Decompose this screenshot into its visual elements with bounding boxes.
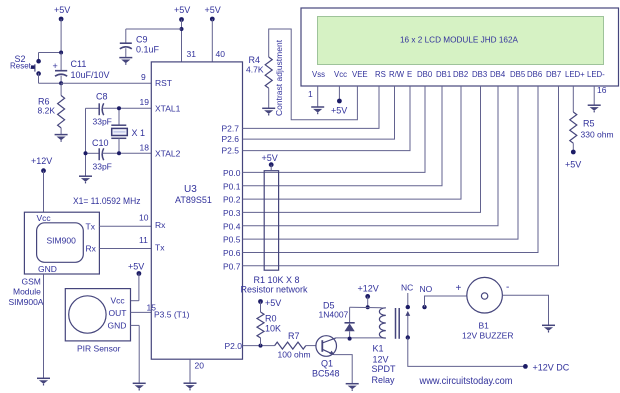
svg-text:P0.6: P0.6 (223, 248, 241, 258)
svg-text:18: 18 (140, 143, 150, 153)
svg-text:20: 20 (195, 361, 205, 371)
svg-text:VEE: VEE (352, 70, 368, 79)
svg-text:C9: C9 (136, 35, 148, 45)
node junction dot below C11 (59, 81, 63, 85)
wire relay NO to buzzer plus (425, 296, 467, 307)
svg-text:P0.2: P0.2 (223, 195, 241, 205)
svg-text:+: + (53, 61, 58, 71)
ground (below R6) (55, 135, 68, 142)
wire LCD DB3 to U3 P0.3 (243, 86, 481, 212)
ground (U3 pin 20) (184, 383, 197, 390)
wire LCD R/W to U3 P2.6 (243, 86, 395, 139)
label C8 value (93, 92, 112, 127)
wire U3 P2.0 to R7 (243, 345, 275, 347)
svg-text:+: + (456, 283, 462, 294)
svg-text:12V BUZZER: 12V BUZZER (462, 331, 514, 341)
svg-text:16 x 2 LCD MODULE JHD 162A: 16 x 2 LCD MODULE JHD 162A (400, 35, 518, 45)
svg-text:XTAL1: XTAL1 (155, 104, 181, 114)
wire S2 bottom to lower junction (39, 73, 62, 83)
svg-text:R7: R7 (288, 331, 300, 341)
svg-text:P2.0: P2.0 (225, 341, 243, 351)
LCD module box (301, 8, 619, 86)
wire relay coil top line (350, 306, 386, 309)
wire LCD DB2 to U3 P0.2 (243, 86, 462, 199)
svg-text:Reset: Reset (10, 62, 32, 71)
node +5V supply (R1 common) (262, 153, 278, 171)
node junction dot D5 anode (348, 337, 352, 341)
svg-text:16: 16 (597, 85, 607, 95)
label D5 1N4007 (319, 301, 349, 320)
resistor R5 330 ohm (570, 112, 577, 152)
LCD pin labels (312, 70, 605, 79)
svg-text:Tx: Tx (155, 243, 165, 253)
svg-text:Vss: Vss (312, 70, 325, 79)
svg-text:1N4007: 1N4007 (319, 310, 349, 320)
svg-text:B1: B1 (479, 321, 490, 331)
svg-text:AT89S51: AT89S51 (175, 195, 212, 205)
node relay NC contact (406, 305, 410, 309)
svg-text:P3.5 (T1): P3.5 (T1) (154, 310, 190, 320)
svg-text:DB4: DB4 (490, 70, 506, 79)
label GSM Module SIM900A (9, 277, 44, 308)
node relay common pivot (406, 335, 410, 339)
svg-text:8.2K: 8.2K (38, 106, 56, 116)
resistor R0 10K (257, 302, 264, 346)
label K1 12V SPDT Relay (372, 344, 397, 386)
label C10 value (92, 138, 112, 172)
relay K1 coil (379, 308, 385, 338)
svg-text:+5V: +5V (54, 5, 70, 15)
svg-text:DB3: DB3 (472, 70, 487, 79)
svg-text:X 1: X 1 (132, 128, 146, 138)
wire LCD E to U3 P2.5 (243, 86, 411, 151)
svg-text:1: 1 (308, 89, 313, 99)
svg-text:P0.3: P0.3 (223, 208, 241, 218)
svg-text:R5: R5 (583, 119, 595, 129)
node junction dot P2.0/R0 (259, 344, 263, 348)
svg-text:E: E (407, 70, 412, 79)
node +12V supply (GSM) (31, 156, 52, 173)
node junction dot relay coil top (366, 305, 370, 309)
U3 right side port labels P2.7 P2.6 P2.5 (222, 124, 240, 156)
LCD green screen (318, 17, 604, 65)
svg-text:+5V: +5V (565, 160, 581, 170)
svg-text:19: 19 (140, 97, 150, 107)
wire NC stub (407, 293, 409, 307)
svg-text:DB5: DB5 (510, 70, 526, 79)
label R6 value (38, 97, 56, 116)
wire U3 pin 20 to ground (189, 359, 191, 383)
wire GSM Tx to U3 Rx (pin 10) (99, 225, 151, 227)
svg-text:31: 31 (187, 49, 197, 59)
svg-text:P0.7: P0.7 (223, 261, 241, 271)
relay K1 core bars (396, 308, 400, 339)
buzzer B1 (467, 277, 503, 313)
resistor R7 100 ohm (275, 342, 316, 349)
wire LCD Vcc stub (338, 86, 340, 101)
svg-text:P0.1: P0.1 (223, 181, 241, 191)
svg-text:+12V DC: +12V DC (533, 363, 570, 373)
U3 pin name labels (154, 78, 190, 320)
node +5V supply (LCD Vcc) (331, 99, 347, 116)
node +5V supply (PIR) (128, 262, 144, 276)
svg-text:DB2: DB2 (453, 70, 468, 79)
svg-text:RST: RST (155, 78, 172, 88)
wire PIR OUT to U3 P3.5 pin 15 (131, 311, 152, 313)
svg-text:R1 10K X 8: R1 10K X 8 (254, 275, 300, 285)
ground (LCD LED-) (588, 105, 601, 112)
svg-text:K1: K1 (373, 344, 384, 354)
label B1 12V BUZZER (462, 321, 514, 341)
svg-text:R/W: R/W (389, 70, 405, 79)
svg-text:U3: U3 (184, 184, 197, 195)
svg-text:10uF/10V: 10uF/10V (71, 70, 110, 80)
svg-text:Tx: Tx (86, 222, 96, 232)
ground (GSM module) (37, 378, 50, 385)
svg-text:PIR Sensor: PIR Sensor (77, 344, 121, 354)
resistor R6 8.2K (58, 83, 65, 134)
label R4 value (246, 55, 264, 75)
label C9 value (136, 35, 160, 55)
svg-text:LED-: LED- (587, 70, 605, 79)
resistor R4 4.7K (265, 57, 272, 108)
node junction dot at +5V/C11 (59, 51, 63, 55)
svg-text:0.1uF: 0.1uF (136, 45, 160, 55)
wire LCD DB7 to U3 P0.7 (243, 86, 559, 266)
wire LCD DB4 to U3 P0.4 (243, 86, 499, 226)
svg-text:Vcc: Vcc (334, 70, 347, 79)
label R7 value (278, 331, 311, 360)
crystal X1 (111, 108, 127, 153)
wire GSM GND down (43, 274, 45, 378)
wire LCD DB1 to U3 P0.1 (243, 86, 443, 186)
wire between C8 and C10 left plates (85, 108, 87, 176)
wire LCD Vss to ground (317, 86, 319, 107)
GSM module SIM900 box (24, 212, 99, 274)
svg-text:DB0: DB0 (417, 70, 433, 79)
svg-text:+5V: +5V (262, 153, 278, 163)
node +5V supply (pin 31) (174, 5, 190, 22)
node +5V supply (R5) (565, 150, 581, 170)
svg-text:+5V: +5V (174, 5, 190, 15)
ground (buzzer) (542, 325, 555, 332)
svg-text:GSM: GSM (22, 277, 41, 287)
svg-text:Vcc: Vcc (37, 213, 52, 223)
svg-text:Vcc: Vcc (111, 296, 126, 306)
wire junction to S2 top (39, 53, 62, 62)
svg-text:X1= 11.0592 MHz: X1= 11.0592 MHz (73, 196, 141, 206)
svg-text:100 ohm: 100 ohm (278, 350, 311, 360)
svg-text:LED+: LED+ (565, 70, 585, 79)
svg-text:SPDT: SPDT (372, 364, 397, 374)
capacitor C8 33pF (86, 103, 152, 115)
switch S2 (reset pushbutton) (31, 59, 41, 76)
svg-text:33pF: 33pF (93, 117, 112, 127)
svg-text:11: 11 (139, 235, 148, 245)
svg-text:Module: Module (13, 287, 41, 297)
svg-text:Contrast adjustment: Contrast adjustment (274, 39, 284, 116)
svg-text:XTAL2: XTAL2 (155, 149, 181, 159)
svg-text:R0: R0 (265, 314, 277, 324)
wire Q1 collector to relay coil bottom (335, 337, 386, 340)
svg-text:P0.5: P0.5 (223, 235, 241, 245)
capacitor C11 10uF/10V (53, 53, 68, 84)
svg-text:4.7K: 4.7K (246, 65, 264, 75)
node junction dot for C9 branch (180, 27, 184, 31)
node +5V supply (R0) (258, 298, 281, 308)
svg-text:DB6: DB6 (527, 70, 542, 79)
svg-text:Resistor network: Resistor network (241, 285, 309, 295)
relay K1 armature with arrow (405, 311, 410, 338)
svg-text:C10: C10 (92, 138, 109, 148)
svg-text:+5V: +5V (331, 106, 347, 116)
svg-text:GND: GND (38, 264, 57, 274)
svg-text:12V: 12V (373, 355, 389, 365)
svg-text:Rx: Rx (155, 220, 166, 230)
svg-text:+5V: +5V (128, 262, 144, 272)
wire +5V to PIR Vcc (131, 274, 139, 301)
svg-text:NO: NO (420, 284, 433, 294)
svg-text:P0.0: P0.0 (223, 168, 241, 178)
wire +5V down to reset junction (60, 19, 62, 53)
node junction dots at crystal (117, 106, 121, 155)
svg-text:10: 10 (139, 213, 149, 223)
svg-text:NC: NC (401, 283, 413, 293)
svg-text:+12V: +12V (358, 284, 379, 294)
svg-text:R4: R4 (249, 55, 261, 65)
svg-text:Relay: Relay (372, 375, 396, 385)
wire LCD DB6 to U3 P0.6 (243, 86, 539, 253)
node +12V supply (relay) (358, 284, 379, 308)
svg-text:P2.5: P2.5 (222, 146, 240, 156)
svg-text:P2.7: P2.7 (222, 124, 240, 134)
svg-text:P2.6: P2.6 (222, 134, 240, 144)
wire LCD DB5 to U3 P0.5 (243, 86, 519, 239)
svg-text:+5V: +5V (205, 5, 221, 15)
wire Q1 emitter to ground (334, 355, 352, 384)
svg-text:40: 40 (216, 49, 226, 59)
svg-text:C11: C11 (71, 59, 87, 69)
label C11 value (71, 59, 110, 80)
diode D5 1N4007 (345, 307, 355, 338)
label S2 Reset (10, 54, 32, 71)
PIR sensor box (65, 289, 130, 341)
wire LCD LED- to ground (593, 86, 595, 105)
svg-text:10K: 10K (265, 324, 281, 334)
svg-text:-: - (506, 282, 509, 293)
ground (Q1 emitter) (346, 384, 359, 391)
wire relay common to +12V DC (408, 338, 526, 367)
ground (below C9) (119, 58, 132, 65)
label R5 value (581, 119, 614, 140)
label Q1 BC548 (312, 359, 340, 379)
wire +12V to GSM module (43, 171, 45, 213)
node relay NO contact (422, 305, 426, 309)
svg-text:www.circuitstoday.com: www.circuitstoday.com (419, 376, 513, 387)
node junction dot at C10 left (84, 151, 88, 155)
wire +5V to U3 pin 31 (181, 20, 183, 62)
ground (R4) (262, 108, 275, 115)
node +12V DC terminal (523, 363, 570, 373)
capacitor C9 0.1uF (120, 43, 132, 57)
node +5V supply (pin 40) (205, 5, 221, 21)
svg-text:Rx: Rx (86, 244, 97, 254)
svg-text:DB1: DB1 (436, 70, 451, 79)
wire PIR GND to ground (131, 325, 140, 383)
svg-text:RS: RS (375, 70, 386, 79)
wire LCD DB0 to U3 P0.0 (243, 86, 426, 172)
node +5V supply (reset circuit) (54, 5, 70, 21)
wire GSM Rx to U3 Tx (pin 11) (99, 248, 151, 250)
svg-text:Q1: Q1 (321, 359, 333, 369)
svg-text:P0.4: P0.4 (223, 221, 241, 231)
label R0 value (265, 314, 281, 334)
wire +5V to U3 pin 40 (211, 19, 213, 62)
svg-text:BC548: BC548 (312, 369, 340, 379)
svg-text:OUT: OUT (109, 308, 127, 318)
capacitor C10 33pF (86, 148, 152, 160)
svg-text:33pF: 33pF (93, 162, 112, 172)
svg-text:+5V: +5V (265, 298, 281, 308)
svg-text:330 ohm: 330 ohm (581, 130, 614, 140)
svg-text:C8: C8 (96, 92, 108, 102)
wire buzzer minus to ground (502, 295, 548, 325)
svg-text:GND: GND (108, 321, 127, 331)
op-amp U3 AT89S51 microcontroller box (151, 62, 242, 359)
wire RST line to U3 pin 9 (61, 82, 151, 84)
wire LCD LED+ to R5 (572, 86, 574, 112)
svg-text:SIM900: SIM900 (47, 236, 77, 246)
svg-text:SIM900A: SIM900A (9, 297, 44, 307)
svg-text:+12V: +12V (31, 156, 52, 166)
ground (crystal caps) (79, 176, 92, 183)
svg-text:9: 9 (141, 72, 146, 82)
svg-text:DB7: DB7 (546, 70, 561, 79)
U3 right side port labels P0.0-P0.7 (223, 168, 241, 271)
wire C9 branch (126, 29, 182, 43)
ground (LCD Vss) (311, 107, 324, 114)
wire LCD RS to U3 P2.7 (243, 86, 380, 128)
wire LCD VEE to contrast pot R4 (269, 29, 358, 120)
resistor network R1 body (264, 171, 278, 271)
ground (PIR) (133, 383, 146, 390)
transistor Q1 BC548 (316, 336, 337, 357)
